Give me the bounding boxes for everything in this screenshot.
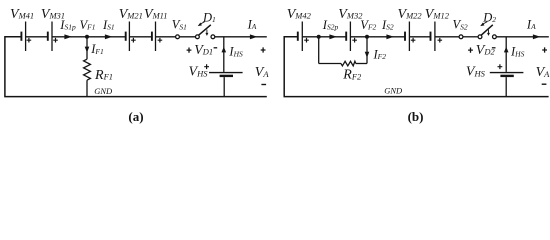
svg-text:GND: GND	[384, 86, 403, 96]
svg-text:(b): (b)	[408, 109, 424, 124]
svg-text:(a): (a)	[128, 109, 143, 124]
svg-text:GND: GND	[94, 86, 113, 96]
